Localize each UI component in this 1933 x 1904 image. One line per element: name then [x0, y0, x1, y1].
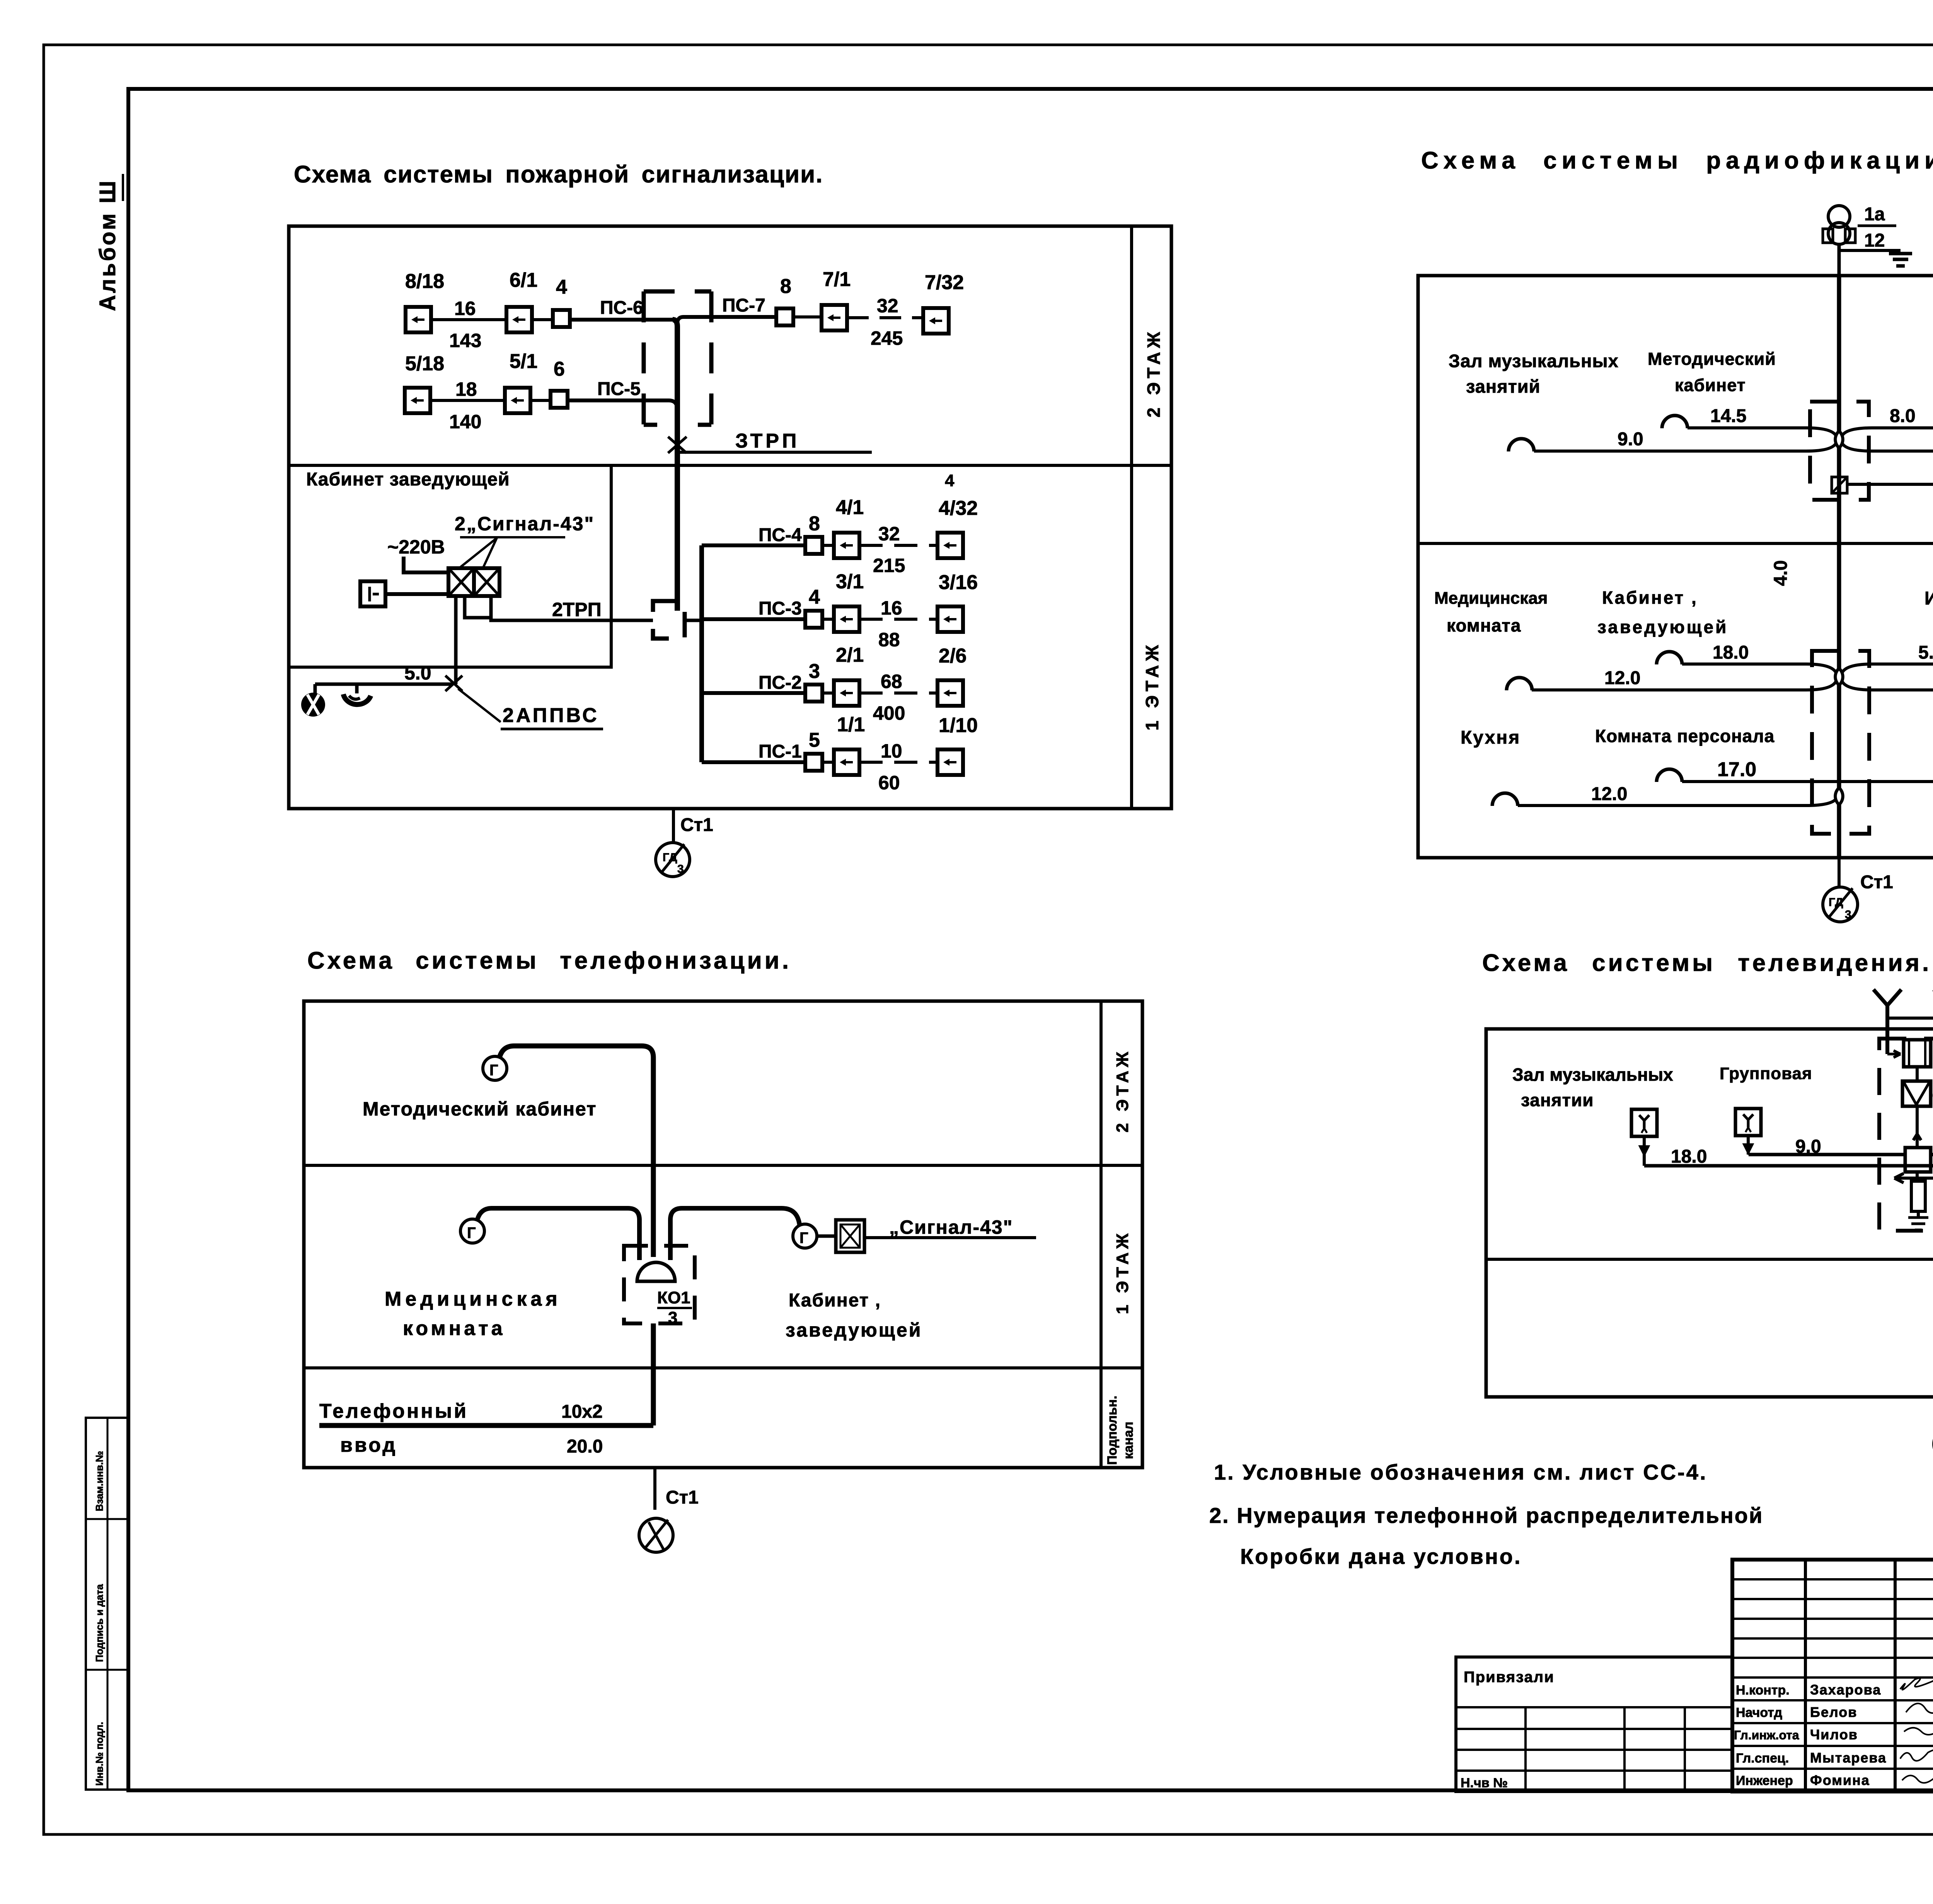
svg-text:ПС-7: ПС-7 — [722, 295, 765, 316]
svg-text:Мытарева: Мытарева — [1810, 1750, 1887, 1766]
phone stояк tail — [655, 1468, 699, 1510]
riser trunk floor2 — [673, 320, 677, 601]
fire alarm floor line — [289, 464, 1171, 467]
wire button to receiver — [385, 592, 448, 596]
svg-text:комната: комната — [1447, 615, 1521, 635]
KO1 dashed box — [624, 1246, 695, 1323]
svg-text:заведующей: заведующей — [1597, 617, 1728, 637]
svg-text:занятии: занятии — [1521, 1090, 1594, 1110]
wire 32/215 — [859, 523, 938, 576]
svg-text:2/6: 2/6 — [939, 645, 966, 667]
svg-text:Фомина: Фомина — [1810, 1772, 1870, 1788]
speaker G left — [1492, 793, 1518, 806]
svg-text:88: 88 — [878, 629, 900, 651]
svg-text:3/16: 3/16 — [939, 571, 978, 594]
node X floor2 — [1835, 431, 1843, 448]
phone T2 circle — [460, 1219, 484, 1243]
svg-text:Коробки дана условно.: Коробки дана условно. — [1240, 1544, 1522, 1569]
svg-text:Г: Г — [467, 1224, 476, 1242]
KZ box 2/1 — [822, 644, 864, 706]
room office box — [289, 465, 611, 667]
callpoint PS4 "8" — [805, 513, 822, 554]
svg-text:60: 60 — [878, 772, 900, 794]
svg-text:Игральные: Игральные — [1924, 588, 1933, 609]
svg-text:12: 12 — [1864, 230, 1885, 251]
tv dashed box — [1879, 1039, 1933, 1231]
KZ box 1/1 — [822, 714, 865, 775]
wire PS-7 — [677, 295, 777, 324]
wire T3 to KO1 — [670, 1208, 799, 1260]
speaker F left — [1657, 769, 1682, 782]
label ZTRP — [680, 430, 872, 452]
tv antenna downleads — [1887, 1051, 1933, 1058]
TITLE fire alarm schematic — [294, 161, 823, 188]
label 4.0 vertical — [1771, 560, 1791, 586]
tv room zal muz — [1512, 1064, 1673, 1110]
riser to ground floor trunk — [675, 601, 680, 611]
fire alarm floor strip divider — [1130, 226, 1133, 809]
stояк tail below box — [673, 809, 713, 843]
leader 2APPVS — [458, 689, 603, 729]
svg-text:Захарова: Захарова — [1810, 1682, 1881, 1698]
room label komnata personala — [1595, 726, 1774, 746]
detector D2 6/1 — [506, 269, 537, 332]
stamp outline — [1732, 1560, 1933, 1792]
svg-text:Схема системы телефонизации.: Схема системы телефонизации. — [307, 947, 791, 974]
svg-text:Н.чв №: Н.чв № — [1461, 1776, 1508, 1790]
wire to ground — [1839, 249, 1901, 252]
wire 16/88 — [859, 597, 938, 651]
wire 220V to receiver — [404, 557, 449, 572]
phone entry wire — [319, 1423, 653, 1428]
svg-text:Схема системы радиофикации.: Схема системы радиофикации. — [1421, 147, 1933, 174]
wire 8.0 — [1842, 406, 1933, 436]
svg-text:ПС-2: ПС-2 — [759, 673, 802, 693]
svg-text:32: 32 — [878, 523, 900, 545]
svg-text:Кабинет ,: Кабинет , — [1602, 588, 1698, 608]
svg-text:2 ЭТАЖ: 2 ЭТАЖ — [1113, 1048, 1132, 1133]
svg-text:Кабинет ,: Кабинет , — [789, 1290, 881, 1311]
svg-text:2/1: 2/1 — [836, 644, 864, 666]
svg-text:Кабинет заведующей: Кабинет заведующей — [306, 469, 510, 490]
svg-text:20.0: 20.0 — [567, 1436, 603, 1457]
fire alarm building outline — [289, 226, 1171, 809]
room label med komnata — [1434, 589, 1548, 635]
left margin stamp column — [86, 1418, 128, 1790]
tv outlet O1 — [1631, 1109, 1707, 1167]
label 10x2 — [561, 1402, 603, 1422]
svg-text:Инв.№ подл.: Инв.№ подл. — [94, 1722, 105, 1786]
tv building outline — [1486, 1029, 1933, 1397]
svg-text:Альбом Ш: Альбом Ш — [95, 179, 120, 311]
tv amp to splitter wire — [1913, 1106, 1921, 1148]
room label metod kabinet — [1648, 349, 1776, 395]
fire bell — [301, 684, 325, 717]
note 2 line 1 — [1209, 1503, 1763, 1528]
svg-text:ЗТРП: ЗТРП — [735, 430, 799, 452]
svg-text:8/18: 8/18 — [405, 270, 444, 293]
wire S2-D3 — [793, 315, 822, 318]
room label kuhnya — [1461, 727, 1520, 748]
svg-text:8: 8 — [780, 275, 791, 298]
svg-text:4/32: 4/32 — [939, 497, 978, 519]
svg-text:Медицинская: Медицинская — [385, 1288, 561, 1310]
tv antenna 1 — [1873, 989, 1901, 1054]
radio building outline — [1418, 276, 1933, 858]
tv opu amplifier — [1902, 1067, 1933, 1106]
svg-text:5/1: 5/1 — [510, 350, 537, 373]
tv distribution line lower — [1644, 1164, 1933, 1168]
svg-text:6/1: 6/1 — [510, 269, 537, 291]
svg-text:Зал музыкальных: Зал музыкальных — [1512, 1064, 1673, 1085]
svg-text:68: 68 — [881, 671, 902, 692]
floor label 2 ETAZH — [1144, 328, 1164, 417]
svg-text:16: 16 — [881, 597, 902, 619]
end detector 4/32 — [938, 471, 978, 558]
phone T1 circle — [483, 1056, 507, 1080]
svg-text:Гл.инж.ота: Гл.инж.ота — [1734, 1728, 1799, 1742]
wire 17.0 — [1682, 758, 1839, 782]
svg-text:Гл.спец.: Гл.спец. — [1736, 1751, 1789, 1766]
receiver Signal-43 — [448, 568, 499, 618]
callpoint PS3 "4" — [805, 586, 822, 628]
KZ box 4/1 — [822, 496, 864, 558]
wire 5.0 junction — [315, 662, 453, 700]
branch trunk vertical — [699, 545, 704, 762]
callpoint S3 "6" — [551, 358, 568, 408]
callpoint S2 "8" — [776, 275, 793, 325]
detector D3 7/1 — [822, 268, 851, 330]
room label zal muz f2 — [1449, 351, 1619, 397]
svg-text:Ст1: Ст1 — [680, 815, 713, 835]
wire 2TRP — [491, 599, 653, 620]
wire PS-4 — [702, 525, 806, 545]
tv floor line — [1486, 1258, 1933, 1261]
svg-text:1 ЭТАЖ: 1 ЭТАЖ — [1113, 1230, 1132, 1314]
svg-text:2АППВС: 2АППВС — [503, 704, 599, 727]
svg-text:5.0: 5.0 — [404, 662, 431, 684]
svg-text:18.0: 18.0 — [1713, 642, 1749, 663]
svg-text:1/10: 1/10 — [939, 714, 978, 737]
wire 9.0 — [1534, 429, 1836, 451]
svg-text:2„Сигнал-43": 2„Сигнал-43" — [455, 513, 595, 535]
svg-text:Телефонный: Телефонный — [319, 1400, 468, 1422]
radio stояк circle — [1823, 887, 1858, 922]
svg-text:„Сигнал-43": „Сигнал-43" — [889, 1216, 1013, 1238]
svg-text:1. Условные обозначения см. ли: 1. Условные обозначения см. лист СС-4. — [1214, 1460, 1707, 1484]
svg-text:1/1: 1/1 — [837, 714, 865, 736]
svg-text:9.0: 9.0 — [1618, 429, 1643, 450]
svg-text:17.0: 17.0 — [1717, 758, 1756, 781]
svg-text:3: 3 — [809, 660, 820, 683]
stamp roles — [1734, 1683, 1799, 1788]
stamp names — [1810, 1682, 1887, 1788]
wire 14.5 — [1688, 406, 1836, 436]
TITLE telephone schematic — [307, 947, 791, 974]
wire TRP to trunk — [685, 619, 702, 622]
wire PS-6 — [569, 298, 673, 320]
svg-text:Схема системы пожарной сигнали: Схема системы пожарной сигнализации. — [294, 161, 823, 188]
svg-text:Чилов: Чилов — [1810, 1727, 1858, 1742]
tv drop arrow — [1894, 1173, 1933, 1351]
floor label 1 ETAZH — [1142, 641, 1162, 731]
radio stояк tail — [1839, 858, 1893, 892]
svg-text:ГД: ГД — [1829, 896, 1843, 909]
stояк circle ST1 fire — [656, 843, 690, 877]
limiter box 18.5 — [1832, 477, 1847, 493]
svg-text:ПС-6: ПС-6 — [600, 298, 643, 318]
svg-text:3: 3 — [677, 863, 684, 875]
wire 12.0 bottom — [1518, 784, 1836, 806]
wire signal-43 label — [864, 1216, 1036, 1238]
svg-text:кабинет: кабинет — [1675, 375, 1746, 395]
TRP dashed box — [653, 601, 685, 639]
wire receiver down — [454, 596, 458, 684]
wire 5.0 f1 — [1842, 642, 1933, 673]
svg-text:Взам.инв.№: Взам.инв.№ — [94, 1451, 105, 1511]
phone floor label 1 — [1113, 1230, 1132, 1314]
svg-text:5/18: 5/18 — [405, 353, 444, 375]
svg-text:4/1: 4/1 — [836, 496, 864, 519]
svg-text:32: 32 — [877, 295, 898, 317]
note 1 — [1214, 1460, 1707, 1484]
svg-text:Г: Г — [799, 1230, 808, 1247]
svg-text:4: 4 — [945, 471, 955, 490]
end detector 2/6 — [938, 645, 966, 706]
album label vertical — [95, 174, 123, 311]
callpoint PS2 "3" — [805, 660, 822, 702]
detector D1 8/18 — [405, 270, 444, 332]
svg-text:ПС-5: ПС-5 — [597, 379, 641, 399]
svg-text:10: 10 — [881, 740, 902, 762]
riser shaft dashed box floor2 — [644, 291, 711, 425]
wire 10/60 — [859, 740, 938, 794]
note 2 line 2 — [1240, 1544, 1522, 1569]
svg-text:7/32: 7/32 — [925, 271, 964, 294]
wire D1-D2 with length 16/143 — [431, 298, 506, 351]
svg-text:Подпись и дата: Подпись и дата — [94, 1584, 105, 1662]
svg-text:9.0: 9.0 — [1795, 1136, 1821, 1157]
svg-text:ГД: ГД — [663, 851, 677, 864]
svg-text:4: 4 — [556, 276, 567, 298]
wire D3-D4 with length 32/245 — [847, 295, 923, 349]
svg-text:5. 0: 5. 0 — [1918, 642, 1933, 663]
phone strip divider — [1099, 1001, 1103, 1468]
svg-text:Начотд: Начотд — [1736, 1705, 1782, 1720]
svg-text:3/1: 3/1 — [836, 571, 864, 593]
detector D6 5/1 — [505, 350, 537, 413]
svg-text:2ТРП: 2ТРП — [552, 599, 602, 620]
KZ box 3/1 — [822, 571, 864, 632]
svg-text:8.0: 8.0 — [1890, 406, 1916, 426]
phone T3 circle — [793, 1224, 817, 1248]
leader to receiver — [460, 538, 497, 567]
svg-text:5: 5 — [809, 729, 820, 751]
wire 18.5 — [1847, 463, 1933, 484]
signal-43 box phone — [836, 1220, 864, 1252]
svg-text:ПС-4: ПС-4 — [759, 525, 802, 545]
phone floor line 2/1 — [304, 1164, 1142, 1167]
radio transformer — [1823, 206, 1855, 244]
svg-text:комната: комната — [403, 1317, 506, 1340]
svg-text:18.0: 18.0 — [1671, 1146, 1707, 1167]
svg-text:Кухня: Кухня — [1461, 727, 1520, 748]
phone building outline — [304, 1001, 1142, 1468]
svg-text:занятий: занятий — [1466, 376, 1541, 397]
riser X mark — [668, 437, 687, 453]
svg-text:400: 400 — [873, 702, 905, 724]
svg-text:3: 3 — [668, 1308, 677, 1327]
svg-text:215: 215 — [873, 555, 905, 576]
wire PS-2 — [702, 673, 806, 693]
wire 18.0 f1 — [1682, 642, 1836, 673]
svg-text:3: 3 — [1845, 908, 1851, 921]
TITLE tv schematic — [1482, 950, 1931, 976]
tv outlet O2 — [1735, 1109, 1821, 1157]
svg-text:12.0: 12.0 — [1591, 784, 1627, 804]
stamp signatures — [1900, 1677, 1933, 1783]
junction X mark — [445, 676, 462, 691]
svg-text:12.0: 12.0 — [1604, 668, 1640, 688]
node X floor1 lower — [1835, 788, 1843, 805]
room label med komnata phone — [385, 1288, 561, 1340]
tv room gruppovaya f2 — [1720, 1064, 1812, 1083]
radio floor line — [1418, 542, 1933, 545]
detector D4 7/32 — [923, 271, 964, 334]
phone floor label 2 — [1113, 1048, 1132, 1133]
svg-text:Зал музыкальных: Зал музыкальных — [1449, 351, 1619, 371]
tv antenna bus wire — [1887, 1017, 1933, 1020]
svg-text:14.5: 14.5 — [1710, 406, 1746, 426]
tv distribution line upper right — [1931, 1153, 1933, 1156]
ground symbol radio — [1889, 254, 1912, 266]
button box — [360, 581, 385, 606]
svg-text:канал: канал — [1121, 1422, 1136, 1459]
room label kabinet zav radio — [1597, 588, 1728, 637]
nchv label — [1461, 1776, 1508, 1790]
svg-text:4.0: 4.0 — [1771, 560, 1791, 586]
end detector 3/16 — [938, 571, 978, 632]
stamp left column grid — [1732, 1560, 1933, 1792]
label 20.0 — [567, 1436, 603, 1457]
svg-text:8: 8 — [809, 513, 820, 535]
svg-text:Ст1: Ст1 — [666, 1487, 699, 1508]
phone floor line 1/basement — [304, 1366, 1142, 1369]
svg-text:4: 4 — [809, 586, 820, 608]
room label kabinet zav phone — [786, 1290, 922, 1341]
speaker D left — [1657, 652, 1682, 664]
tv head amplifier — [1904, 1040, 1931, 1067]
wire D5-D6 with length 18/140 — [430, 378, 505, 433]
svg-text:18: 18 — [455, 378, 477, 400]
svg-text:ПС-3: ПС-3 — [759, 598, 802, 619]
svg-text:КО1: КО1 — [657, 1288, 690, 1307]
room label Kabinet zaveduyushchey — [306, 469, 510, 490]
wire PS-3 — [702, 598, 806, 619]
wire transformer down — [1838, 244, 1841, 276]
label ~220V — [387, 536, 445, 558]
wire 12.0 f1 — [1532, 668, 1836, 690]
wire D2-S1 — [532, 318, 554, 321]
wire T1 to riser — [499, 1046, 653, 1257]
label 1a/12 — [1858, 204, 1896, 251]
svg-text:140: 140 — [449, 411, 481, 433]
svg-text:1а: 1а — [1864, 204, 1885, 225]
tv load resistor — [1908, 1172, 1928, 1230]
svg-text:245: 245 — [871, 327, 903, 349]
svg-text:1 ЭТАЖ: 1 ЭТАЖ — [1142, 641, 1162, 731]
end detector 1/10 — [938, 714, 978, 775]
wire 13.0 — [1842, 668, 1933, 690]
svg-text:7/1: 7/1 — [823, 268, 851, 291]
callpoint PS1 "5" — [805, 729, 822, 771]
privyazali table — [1456, 1657, 1732, 1792]
tv splitter box — [1905, 1148, 1931, 1172]
speaker E left — [1507, 678, 1532, 690]
radio dashed box floor2 — [1810, 402, 1869, 500]
svg-text:Привязали: Привязали — [1464, 1669, 1555, 1686]
privyazali label — [1464, 1669, 1555, 1686]
wire PS-5 — [567, 379, 677, 410]
svg-text:Методический: Методический — [1648, 349, 1776, 369]
KO1 label — [657, 1288, 692, 1327]
phone riser lower — [651, 1323, 656, 1425]
svg-text:2 ЭТАЖ: 2 ЭТАЖ — [1144, 328, 1164, 417]
node X floor1 upper — [1835, 668, 1843, 685]
svg-text:6: 6 — [554, 358, 565, 380]
TITLE radio schematic — [1421, 147, 1933, 174]
wire T3 to signal box — [817, 1235, 836, 1238]
svg-text:Ст1: Ст1 — [1860, 872, 1893, 892]
room label igralnye — [1924, 588, 1933, 609]
svg-text:10х2: 10х2 — [561, 1402, 603, 1422]
KO1 dome symbol — [637, 1262, 675, 1281]
speaker A left — [1662, 416, 1688, 428]
detector D5 5/18 — [405, 353, 444, 413]
tv distribution line upper left — [1749, 1153, 1905, 1156]
svg-text:Комната персонала: Комната персонала — [1595, 726, 1774, 746]
label telefonny vvod — [319, 1400, 468, 1456]
wire T2 to KO1 — [477, 1208, 639, 1260]
svg-text:143: 143 — [449, 330, 481, 351]
phone basement label — [1105, 1396, 1136, 1465]
svg-text:Г: Г — [489, 1062, 498, 1079]
svg-text:ввод: ввод — [340, 1434, 397, 1456]
phone stояк circle — [639, 1518, 673, 1552]
speaker B left — [1509, 439, 1534, 451]
svg-text:ПС-1: ПС-1 — [759, 741, 802, 762]
fire horn — [343, 684, 371, 705]
svg-text:Схема системы телевидения.: Схема системы телевидения. — [1482, 950, 1931, 976]
wire PS-1 — [702, 741, 806, 762]
svg-text:Инженер: Инженер — [1736, 1773, 1793, 1788]
radio dashed box floor1 — [1812, 651, 1869, 834]
svg-text:Н.контр.: Н.контр. — [1736, 1683, 1790, 1698]
label 2 Signal-43 — [455, 513, 595, 537]
svg-text:заведующей: заведующей — [786, 1319, 922, 1341]
radio trunk riser — [1837, 276, 1841, 858]
svg-text:Медицинская: Медицинская — [1434, 589, 1548, 608]
svg-text:Групповая: Групповая — [1720, 1064, 1812, 1083]
room label metod kabinet phone — [363, 1098, 597, 1120]
callpoint S1 "4" — [553, 276, 570, 327]
svg-text:Методический кабинет: Методический кабинет — [363, 1098, 597, 1120]
wire 15.5 — [1842, 429, 1933, 451]
svg-text:2. Нумерация телефонной распре: 2. Нумерация телефонной распределительно… — [1209, 1503, 1763, 1528]
svg-text:Белов: Белов — [1810, 1704, 1857, 1720]
svg-text:16: 16 — [454, 298, 476, 319]
svg-text:~220В: ~220В — [387, 536, 445, 558]
